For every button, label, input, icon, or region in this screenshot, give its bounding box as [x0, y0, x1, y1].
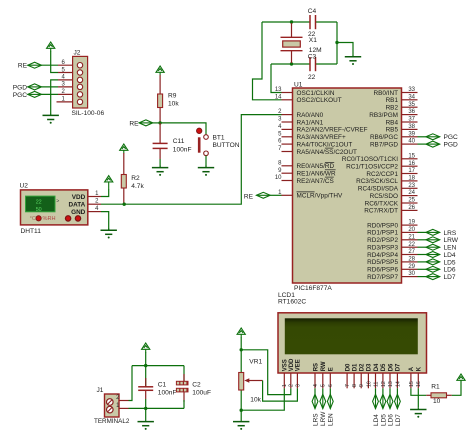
- wire OSC rail bottom left: [271, 63, 310, 65]
- svg-text:RE: RE: [18, 63, 28, 70]
- svg-text:LD4: LD4: [444, 252, 456, 259]
- U1 right pins: [402, 93, 418, 277]
- svg-text:RA2/AN2/VREF-/CVREF: RA2/AN2/VREF-/CVREF: [297, 127, 368, 134]
- svg-text:D6: D6: [388, 363, 394, 371]
- svg-text:36: 36: [408, 109, 415, 115]
- svg-text:4.7k: 4.7k: [131, 183, 144, 190]
- svg-text:D2: D2: [360, 363, 366, 371]
- potentiometer VR1: [239, 373, 263, 391]
- junction R2/DATA: [123, 203, 126, 206]
- wire DHT11 VDD to power: [101, 189, 109, 196]
- svg-text:10k: 10k: [250, 397, 261, 404]
- capacitor C4: [310, 15, 316, 29]
- wire R1 to power: [452, 380, 461, 395]
- svg-text:RE: RE: [244, 194, 254, 201]
- node LD7 terminal: [395, 394, 401, 408]
- svg-text:8: 8: [352, 384, 358, 387]
- svg-text:RC5/SDO: RC5/SDO: [370, 193, 398, 200]
- svg-text:LD6: LD6: [387, 414, 394, 426]
- svg-text:X1: X1: [309, 37, 317, 44]
- svg-text:100nF: 100nF: [173, 146, 192, 153]
- svg-text:RD0/PSP0: RD0/PSP0: [367, 222, 398, 229]
- svg-text:10: 10: [366, 381, 372, 387]
- svg-text:D1: D1: [352, 363, 358, 371]
- wire LCD LRS drop: [314, 388, 316, 394]
- svg-text:RA4/T0CKI/C1OUT: RA4/T0CKI/C1OUT: [297, 141, 353, 148]
- LCD1 pins: [284, 373, 418, 388]
- node RE (reset) terminal: [139, 120, 153, 126]
- svg-text:D7: D7: [396, 363, 402, 371]
- svg-text:DATA: DATA: [68, 202, 85, 209]
- svg-text:RB3/PGM: RB3/PGM: [369, 112, 398, 119]
- power terminal VCC above VR1: [237, 328, 245, 337]
- svg-text:°C: °C: [30, 216, 36, 222]
- svg-text:D3: D3: [367, 363, 373, 371]
- svg-text:39: 39: [408, 131, 415, 137]
- microcontroller U1 PIC16F877A: [293, 88, 402, 283]
- ground below C11: [152, 166, 168, 176]
- power terminal VCC near R1: [457, 374, 465, 381]
- capacitor C1: [138, 366, 153, 409]
- svg-text:BUTTON: BUTTON: [213, 142, 240, 149]
- node LD6 terminal: [387, 394, 393, 408]
- svg-text:>: >: [56, 199, 59, 205]
- svg-text:LRW: LRW: [320, 411, 327, 426]
- junction VR1 top: [240, 348, 243, 351]
- svg-text:7: 7: [345, 384, 351, 387]
- wire RE to MCLR: [270, 194, 281, 196]
- svg-text:RE: RE: [129, 120, 139, 127]
- svg-text:25: 25: [408, 198, 415, 204]
- wire RD to LEN: [418, 246, 426, 248]
- resistor R2: [121, 153, 126, 204]
- junction reset node: [158, 121, 161, 124]
- svg-text:10: 10: [275, 175, 282, 181]
- wire VR1 bottom: [240, 390, 242, 410]
- svg-text:VSS: VSS: [283, 359, 289, 371]
- U1 left pin numbers: [275, 87, 282, 196]
- svg-text:RD5/PSP5: RD5/PSP5: [367, 259, 398, 266]
- svg-text:26: 26: [408, 205, 415, 211]
- wire supply bottom rail: [129, 407, 185, 409]
- svg-text:R1: R1: [431, 384, 440, 391]
- resistor R9: [158, 75, 163, 123]
- svg-text:17: 17: [408, 168, 415, 174]
- svg-text:14: 14: [275, 94, 282, 100]
- wire supply top rail: [132, 365, 184, 367]
- node LD4 (U1) terminal: [426, 252, 440, 258]
- ground below LCD K: [410, 408, 426, 418]
- svg-text:VR1: VR1: [249, 358, 262, 365]
- svg-text:RD3/PSP3: RD3/PSP3: [367, 245, 398, 252]
- svg-text:RC6/TX/CK: RC6/TX/CK: [365, 200, 399, 207]
- svg-text:LRS: LRS: [312, 413, 319, 426]
- power terminal VCC above R9: [156, 66, 164, 75]
- svg-text:RC7/RX/DT: RC7/RX/DT: [364, 208, 398, 215]
- svg-text:A: A: [409, 366, 415, 371]
- wire to OSC1: [271, 64, 282, 93]
- svg-text:100uF: 100uF: [192, 390, 211, 397]
- power terminal VCC above DHT11: [105, 176, 113, 190]
- wire C11 to ground: [159, 159, 161, 167]
- svg-text:DHT11: DHT11: [21, 228, 42, 235]
- node PGC (J2) terminal: [28, 91, 42, 97]
- wire VR1 rail: [240, 337, 242, 373]
- node LRW terminal: [320, 394, 326, 408]
- junction bottom rail: [144, 407, 147, 410]
- svg-text:28: 28: [408, 257, 415, 263]
- svg-text:PGD: PGD: [13, 84, 28, 91]
- svg-text:C3: C3: [308, 54, 317, 61]
- node RE (U1) terminal: [256, 192, 270, 198]
- svg-text:34: 34: [408, 94, 415, 100]
- svg-text:37: 37: [408, 117, 415, 123]
- wire LCD A to R1: [411, 388, 426, 395]
- svg-text:RT1602C: RT1602C: [278, 298, 306, 305]
- svg-text:LD4: LD4: [373, 414, 380, 426]
- svg-text:LD7: LD7: [444, 274, 456, 281]
- svg-text:R9: R9: [168, 93, 177, 100]
- wire RB6 to PGC: [418, 136, 426, 138]
- svg-text:RC3/SCK/SCL: RC3/SCK/SCL: [356, 178, 398, 185]
- wire LCD LD5 drop: [382, 388, 384, 394]
- svg-text:22: 22: [308, 74, 316, 81]
- U1 right pin names: [342, 90, 399, 281]
- svg-text:RB5: RB5: [386, 127, 399, 134]
- wire to crystal ground: [337, 43, 353, 56]
- wire LCD LD4 drop: [375, 388, 377, 394]
- svg-text:19: 19: [408, 220, 415, 226]
- svg-text:SIL-100-06: SIL-100-06: [72, 110, 105, 117]
- svg-text:3: 3: [295, 384, 301, 387]
- push button BT1: [197, 128, 209, 156]
- wire OSC rail bottom right: [316, 63, 338, 65]
- U2 pin numbers: [95, 191, 99, 212]
- svg-text:PGD: PGD: [444, 142, 459, 149]
- svg-text:%RH: %RH: [43, 216, 56, 222]
- connector J2 SIL-100-06: [57, 56, 88, 108]
- svg-text:23: 23: [408, 183, 415, 189]
- svg-text:29: 29: [408, 264, 415, 270]
- svg-text:D5: D5: [381, 363, 387, 371]
- svg-text:C1: C1: [158, 382, 167, 389]
- wire RD to LRS: [418, 231, 426, 233]
- ground crystal ground: [345, 55, 361, 65]
- svg-text:1: 1: [282, 384, 288, 387]
- svg-text:5: 5: [321, 384, 327, 387]
- wire RD to LD7: [418, 276, 426, 278]
- svg-text:14: 14: [395, 381, 401, 387]
- wire RD to LD6: [418, 268, 426, 270]
- wire J2 pin 4 to ground: [51, 80, 58, 114]
- power terminal VCC above J2: [47, 42, 55, 51]
- svg-text:LD6: LD6: [444, 267, 456, 274]
- svg-text:D0: D0: [345, 363, 351, 371]
- svg-text:LRW: LRW: [444, 237, 459, 244]
- svg-text:GND: GND: [71, 209, 86, 216]
- wire GND to LCD VSS: [241, 388, 284, 410]
- node RE (J2) terminal: [28, 62, 42, 68]
- svg-text:RD1/PSP1: RD1/PSP1: [367, 230, 398, 237]
- svg-text:40: 40: [408, 139, 415, 145]
- svg-text:RA1/AN1: RA1/AN1: [297, 119, 324, 126]
- svg-text:100nF: 100nF: [158, 390, 177, 397]
- svg-text:LEN: LEN: [444, 245, 457, 252]
- svg-text:MCLR/Vpp/THV: MCLR/Vpp/THV: [297, 193, 344, 200]
- svg-text:RB2: RB2: [386, 105, 399, 112]
- svg-text:12: 12: [381, 381, 387, 387]
- ground below BT1: [198, 166, 214, 176]
- node LD5 terminal: [380, 394, 386, 408]
- svg-text:LD7: LD7: [395, 414, 402, 426]
- wire LCD K to ground: [417, 388, 419, 408]
- node PGD (J2) terminal: [28, 84, 42, 90]
- svg-text:RC4/SDI/SDA: RC4/SDI/SDA: [358, 186, 399, 193]
- svg-text:PIC16F877A: PIC16F877A: [294, 285, 332, 292]
- svg-text:RB1: RB1: [386, 97, 399, 104]
- svg-text:LD5: LD5: [380, 414, 387, 426]
- svg-text:C2: C2: [192, 382, 201, 389]
- junction gnd tap: [335, 41, 338, 44]
- svg-text:LRS: LRS: [444, 230, 457, 237]
- svg-text:PGC: PGC: [444, 134, 459, 141]
- LCD display LCD1 RT1602C body: [278, 313, 427, 373]
- U1 pin-name overlines: [297, 148, 336, 192]
- wire VCC to LCD VDD: [241, 350, 291, 395]
- wire to OSC2: [253, 22, 282, 100]
- wire LCD LRW drop: [322, 388, 324, 394]
- svg-text:D4: D4: [374, 363, 380, 371]
- svg-text:RB7/PGD: RB7/PGD: [370, 141, 398, 148]
- svg-text:U2: U2: [20, 182, 29, 189]
- svg-text:24: 24: [408, 190, 415, 196]
- J2 pin numbers: [61, 60, 65, 103]
- wire RD to LRW: [418, 239, 426, 241]
- node LD4 terminal: [373, 394, 379, 408]
- wire OSC rail top right: [316, 21, 338, 23]
- wire VR1 wiper to LCD VEE: [263, 381, 298, 402]
- ground supply ground: [138, 408, 154, 430]
- wire LCD LEN drop: [329, 388, 331, 394]
- node LD7 (U1) terminal: [426, 274, 440, 280]
- wire RB7 to PGD: [418, 143, 426, 145]
- DHT11 sensor U2: [21, 190, 102, 225]
- node LRS (U1) terminal: [426, 229, 440, 235]
- svg-text:VDD: VDD: [289, 358, 295, 371]
- LCD1 pin names: [283, 358, 423, 371]
- node LD6 (U1) terminal: [426, 266, 440, 272]
- node PGC (U1) terminal: [426, 134, 440, 140]
- wire RE to reset node: [153, 122, 160, 124]
- wire reset node to BT1: [160, 123, 206, 135]
- resistor R1: [426, 393, 452, 398]
- ground below VR1: [233, 410, 249, 430]
- svg-text:50: 50: [36, 207, 42, 213]
- svg-text:RB4: RB4: [386, 119, 399, 126]
- wire BT1 to ground: [205, 156, 207, 167]
- capacitor C11: [153, 123, 168, 159]
- svg-text:15: 15: [408, 153, 415, 159]
- svg-text:RC1/T1OSI/CCP2: RC1/T1OSI/CCP2: [346, 164, 398, 171]
- svg-text:27: 27: [408, 249, 415, 255]
- node LEN terminal: [327, 394, 333, 408]
- svg-text:21: 21: [408, 234, 415, 240]
- wire RD to LD5: [418, 261, 426, 263]
- svg-text:RA5/AN4/SS/C2OUT: RA5/AN4/SS/C2OUT: [297, 149, 357, 156]
- svg-text:33: 33: [408, 87, 415, 93]
- U1 right pin numbers: [408, 87, 415, 277]
- svg-text:PGC: PGC: [13, 92, 28, 99]
- svg-text:18: 18: [408, 176, 415, 182]
- ground below J2: [43, 114, 59, 124]
- svg-text:RW: RW: [321, 361, 327, 371]
- svg-text:E: E: [329, 367, 335, 371]
- J1 pin numbers: [116, 395, 120, 409]
- node LRS terminal: [312, 394, 318, 408]
- svg-text:RD2/PSP2: RD2/PSP2: [367, 237, 398, 244]
- wire VCC rail vertical: [145, 352, 147, 366]
- power terminal VCC above R2: [120, 144, 128, 153]
- svg-text:10k: 10k: [168, 101, 179, 108]
- ground below DHT11: [101, 229, 117, 239]
- wire rail to J1 pin 2: [129, 366, 133, 401]
- svg-text:RA0/AN0: RA0/AN0: [297, 112, 324, 119]
- svg-text:VEE: VEE: [296, 359, 302, 371]
- svg-text:4: 4: [313, 384, 319, 387]
- svg-text:OSC2/CLKOUT: OSC2/CLKOUT: [297, 97, 342, 104]
- svg-text:15: 15: [409, 381, 415, 387]
- svg-text:16: 16: [416, 381, 422, 387]
- svg-text:RA3/AN3/VREF+: RA3/AN3/VREF+: [297, 134, 346, 141]
- wire RD to LD4: [418, 254, 426, 256]
- wire RE to J2 pin 6: [42, 64, 59, 66]
- svg-text:J2: J2: [74, 50, 81, 57]
- wire DATA net: DHT11 to PIC RA0: [101, 115, 282, 205]
- svg-text:RE0/AN5/RD: RE0/AN5/RD: [297, 163, 335, 170]
- wire LCD LD7 drop: [396, 388, 398, 394]
- junction X1 bottom: [290, 62, 293, 65]
- svg-text:U1: U1: [294, 82, 303, 89]
- svg-text:R2: R2: [131, 175, 140, 182]
- wire PGC to J2 pin 2: [42, 93, 59, 95]
- svg-text:RD6/PSP6: RD6/PSP6: [367, 267, 398, 274]
- svg-text:BT1: BT1: [213, 135, 225, 142]
- node PGD (U1) terminal: [426, 141, 440, 147]
- wire OSC rail top left: [262, 21, 310, 23]
- junction top rail: [144, 364, 147, 367]
- junction X1 top: [290, 20, 293, 23]
- capacitor C3: [310, 57, 316, 71]
- svg-text:RC2/CCP1: RC2/CCP1: [366, 171, 398, 178]
- terminal block J1 TERMINAL2: [105, 394, 129, 417]
- svg-text:16: 16: [408, 161, 415, 167]
- U1 left pin names: [297, 90, 368, 200]
- U1 left pins: [282, 93, 293, 196]
- svg-text:35: 35: [408, 102, 415, 108]
- svg-text:RD4/PSP4: RD4/PSP4: [367, 252, 398, 259]
- svg-text:VDD: VDD: [72, 194, 86, 201]
- svg-text:K: K: [417, 366, 423, 371]
- svg-text:13: 13: [388, 381, 394, 387]
- svg-text:13: 13: [275, 87, 282, 93]
- svg-text:22: 22: [408, 242, 415, 248]
- wire rail right vertical: [336, 22, 338, 64]
- svg-text:J1: J1: [97, 387, 104, 394]
- svg-text:LD5: LD5: [444, 259, 456, 266]
- wire PGD to J2 pin 3: [42, 86, 59, 88]
- power terminal VCC supply: [142, 343, 150, 352]
- power terminal wire to J2 pin 5: [51, 51, 58, 73]
- svg-text:LEN: LEN: [328, 413, 335, 426]
- node LRW (U1) terminal: [426, 237, 440, 243]
- wire DHT11 GND to ground: [101, 212, 109, 230]
- svg-text:RB6/PGC: RB6/PGC: [370, 134, 398, 141]
- capacitor C2 (electrolytic): [176, 366, 188, 409]
- svg-text:RB0/INT: RB0/INT: [373, 90, 398, 97]
- svg-text:RD7/PSP7: RD7/PSP7: [367, 274, 398, 281]
- svg-text:10: 10: [433, 398, 441, 405]
- svg-text:6: 6: [328, 384, 334, 387]
- svg-text:22: 22: [36, 199, 42, 205]
- svg-text:2: 2: [289, 384, 295, 387]
- svg-text:20: 20: [408, 227, 415, 233]
- svg-text:11: 11: [373, 382, 379, 387]
- junction VR1 bottom: [240, 409, 243, 412]
- svg-text:9: 9: [359, 384, 365, 387]
- node LEN (U1) terminal: [426, 244, 440, 250]
- wire LCD LD6 drop: [389, 388, 391, 394]
- svg-text:RE2/AN7/CS: RE2/AN7/CS: [297, 178, 334, 185]
- node LD5 (U1) terminal: [426, 259, 440, 265]
- svg-text:RC0/T1OSO/T1CKI: RC0/T1OSO/T1CKI: [342, 156, 398, 163]
- svg-text:C4: C4: [308, 8, 317, 15]
- svg-text:C11: C11: [173, 138, 185, 145]
- svg-text:RE1/AN6/WR: RE1/AN6/WR: [297, 171, 336, 178]
- svg-text:OSC1/CLKIN: OSC1/CLKIN: [297, 90, 335, 97]
- svg-text:30: 30: [408, 271, 415, 277]
- LCD1 pin numbers: [282, 381, 422, 387]
- svg-text:TERMINAL2: TERMINAL2: [94, 418, 130, 425]
- crystal X1: [281, 23, 303, 63]
- svg-text:38: 38: [408, 124, 415, 130]
- svg-text:RS: RS: [313, 363, 319, 371]
